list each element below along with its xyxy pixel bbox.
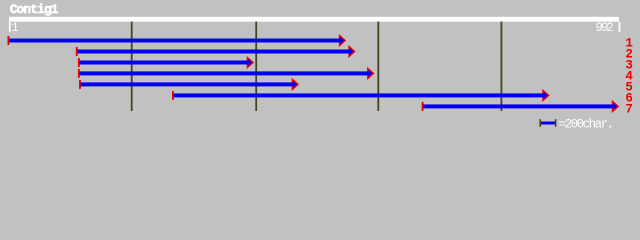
read 1 arrowhead bbox=[340, 36, 346, 46]
ruler label 992| pipe bbox=[619, 22, 621, 32]
gridline 400 bbox=[255, 22, 257, 112]
ruler bar bbox=[9, 17, 619, 22]
legend left tick bbox=[539, 119, 541, 127]
read 6 start tick bbox=[172, 91, 174, 100]
read 4 bar bbox=[80, 71, 370, 75]
read 6 arrowhead bbox=[543, 90, 549, 100]
read 7 start tick bbox=[422, 102, 424, 111]
legend bar bbox=[541, 122, 555, 125]
gridline 800 bbox=[501, 22, 503, 112]
read 2 bar bbox=[77, 50, 351, 54]
read 7 bar bbox=[423, 104, 614, 108]
read 1 bar bbox=[9, 39, 341, 43]
read 3 arrowhead bbox=[247, 58, 253, 68]
svg-text:Contig1: Contig1 bbox=[10, 2, 59, 17]
gridline 200 bbox=[131, 22, 133, 112]
svg-text:1: 1 bbox=[11, 21, 19, 35]
read 6 bar bbox=[174, 93, 545, 97]
read 4 start tick bbox=[78, 69, 80, 78]
read 5 bar bbox=[81, 82, 295, 86]
svg-text:=200char.: =200char. bbox=[559, 118, 615, 132]
read 1 start tick bbox=[8, 36, 10, 45]
read 2 arrowhead bbox=[349, 47, 355, 57]
read 5 arrowhead bbox=[292, 79, 298, 89]
legend right tick bbox=[555, 119, 557, 127]
read 2 start tick bbox=[76, 47, 78, 56]
read 3 bar bbox=[80, 61, 250, 65]
read 3 start tick bbox=[78, 58, 80, 67]
read 5 start tick bbox=[79, 80, 81, 89]
ruler label |1 pipe bbox=[9, 22, 11, 32]
read 7 arrowhead bbox=[613, 101, 619, 111]
gridline 600 bbox=[377, 22, 379, 112]
read 4 arrowhead bbox=[368, 68, 374, 78]
svg-text:992: 992 bbox=[595, 21, 613, 35]
svg-text:7: 7 bbox=[625, 103, 633, 117]
